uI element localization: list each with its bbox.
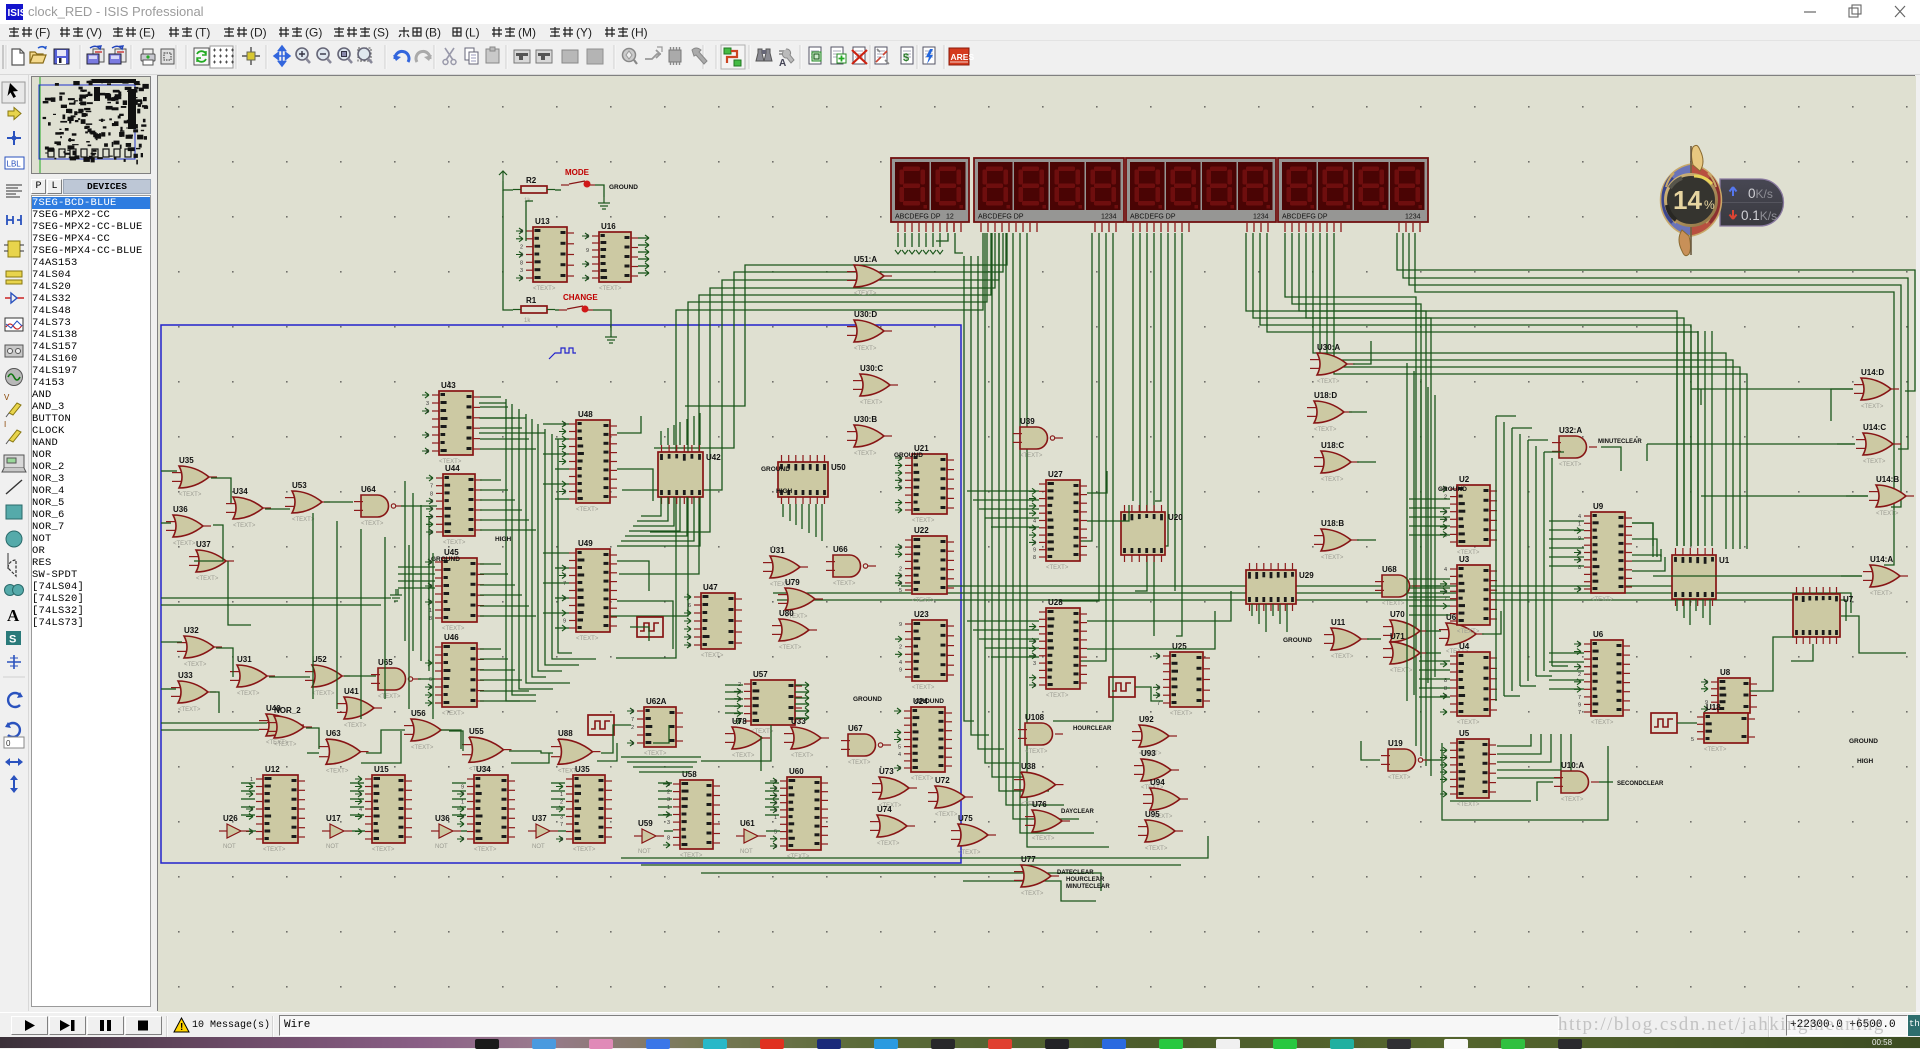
svg-text:<TEXT>: <TEXT>: [833, 581, 856, 587]
svg-text:6: 6: [1157, 654, 1160, 660]
wire: [1536, 675, 1552, 677]
svg-text:4: 4: [520, 253, 523, 259]
wire: [551, 782, 565, 784]
7seg display module DS2: [974, 158, 1124, 232]
wire: [1520, 685, 1536, 687]
wire: [398, 566, 435, 568]
wire: [725, 698, 743, 700]
wire: [1497, 734, 1571, 778]
svg-text:<TEXT>: <TEXT>: [576, 507, 599, 513]
wire: [1155, 233, 1161, 501]
svg-text:<TEXT>: <TEXT>: [1382, 601, 1405, 607]
svg-text:4: 4: [563, 596, 566, 602]
wire: [352, 830, 365, 832]
wire: [985, 647, 1039, 649]
wire: [1056, 233, 1106, 661]
svg-text:5: 5: [426, 409, 429, 415]
wire: [452, 814, 466, 816]
svg-text:6: 6: [430, 530, 433, 536]
svg-text:6: 6: [563, 422, 566, 428]
gate U11: [1324, 618, 1369, 660]
wire: [555, 309, 559, 311]
wire: [1062, 233, 1092, 541]
svg-text:U19: U19: [1388, 739, 1403, 748]
IC U45: [425, 548, 484, 632]
wire: [1841, 575, 1862, 577]
svg-text:<TEXT>: <TEXT>: [1314, 427, 1337, 433]
wire: [633, 497, 674, 526]
IC U2: [1440, 475, 1497, 556]
wire: [1442, 743, 1608, 820]
buffer U59: [634, 819, 664, 855]
wire: [480, 406, 508, 408]
wire: [1156, 233, 1168, 546]
wire: [1420, 379, 1422, 689]
svg-text:<TEXT>: <TEXT>: [1331, 654, 1354, 660]
wire: [1403, 233, 1908, 449]
svg-text:<TEXT>: <TEXT>: [1876, 511, 1899, 517]
svg-text:9: 9: [899, 622, 902, 628]
svg-text:2: 2: [250, 807, 253, 813]
svg-text:U14:D: U14:D: [1861, 368, 1884, 377]
wire: [1831, 389, 1853, 421]
svg-text:U2: U2: [1459, 475, 1470, 484]
svg-text:ABCDEFG DP: ABCDEFG DP: [895, 214, 941, 221]
svg-text:GROUND: GROUND: [431, 556, 460, 563]
IC U15: [355, 765, 412, 853]
inner dark circle: [1666, 175, 1717, 226]
svg-text:7: 7: [430, 507, 433, 513]
gate U32: [177, 626, 222, 668]
buffer U61: [736, 819, 766, 855]
wire: [480, 658, 508, 660]
wire: [658, 814, 672, 816]
wire: [617, 469, 653, 501]
gate U30:B: [847, 415, 892, 457]
svg-text:NOT: NOT: [532, 844, 545, 850]
wire: [1704, 331, 1706, 546]
wire: [1421, 585, 1441, 587]
wire: [1265, 604, 1267, 632]
wire: [480, 648, 501, 650]
svg-text:U64: U64: [361, 485, 376, 494]
wire: [480, 489, 508, 491]
wire: [161, 470, 177, 472]
wire: [1419, 678, 1450, 680]
wire: [650, 233, 995, 532]
gate U34: [226, 487, 271, 529]
svg-text:<TEXT>: <TEXT>: [791, 753, 814, 759]
svg-text:3: 3: [520, 268, 523, 274]
gate U72: [928, 776, 973, 818]
wire: [1292, 233, 1421, 756]
wire: [211, 478, 231, 503]
wire: [1683, 331, 1685, 546]
wire: [558, 830, 566, 832]
wire: [1357, 461, 1376, 463]
svg-text:<TEXT>: <TEXT>: [1861, 404, 1884, 410]
svg-text:<TEXT>: <TEXT>: [443, 540, 466, 546]
wire: [701, 873, 1101, 891]
wire: [210, 692, 219, 713]
svg-text:4: 4: [898, 752, 901, 758]
wire: [979, 638, 1039, 640]
wire: [795, 710, 809, 712]
svg-text:<TEXT>: <TEXT>: [599, 286, 622, 292]
svg-text:8: 8: [667, 835, 670, 841]
wire: [1601, 447, 1621, 471]
svg-text:1: 1: [1578, 665, 1581, 671]
wire: [555, 438, 569, 440]
svg-text:U37: U37: [532, 814, 547, 823]
svg-text:(G): (G): [305, 26, 322, 40]
wire: [619, 233, 991, 574]
IC U20 (rotated): [1121, 505, 1183, 562]
wire: [789, 504, 791, 521]
wire: [1543, 452, 1545, 671]
wire: [350, 798, 364, 800]
wire: [1549, 538, 1584, 540]
wire: [1647, 443, 1855, 445]
wire: [397, 589, 399, 595]
wire: [1503, 422, 1505, 696]
svg-text:<TEXT>: <TEXT>: [292, 517, 315, 523]
svg-text:<TEXT>: <TEXT>: [1317, 379, 1340, 385]
gate U36: [166, 505, 211, 547]
svg-text:NOT: NOT: [326, 844, 339, 850]
gate U70: [1383, 610, 1428, 652]
wire: [1504, 695, 1520, 697]
wire: [1334, 233, 1747, 549]
svg-text:<TEXT>: <TEXT>: [1032, 836, 1055, 842]
svg-text:MODE: MODE: [565, 168, 590, 177]
wire: [1409, 516, 1450, 518]
wire: [1353, 341, 1371, 364]
wire: [1750, 637, 1793, 691]
svg-text:HIGH: HIGH: [1857, 758, 1874, 765]
svg-text:U4: U4: [1459, 642, 1470, 651]
svg-text:<TEXT>: <TEXT>: [378, 694, 401, 700]
svg-text:7: 7: [563, 581, 566, 587]
wire: [1549, 547, 1584, 549]
svg-text:1: 1: [560, 792, 563, 798]
svg-text:4: 4: [899, 574, 902, 580]
IC U18: [1691, 703, 1755, 753]
wire: [1419, 696, 1450, 698]
IC U62A: [627, 697, 683, 757]
wire: [1632, 539, 1657, 557]
wire: [265, 508, 290, 510]
wire: [979, 508, 1039, 510]
svg-text:7: 7: [1444, 756, 1447, 762]
wire: [1251, 604, 1253, 616]
wire: [765, 798, 779, 800]
svg-text:7: 7: [1578, 710, 1581, 716]
wire: [765, 790, 779, 792]
wire: [1409, 605, 1450, 607]
wire: [699, 413, 701, 445]
wire: [269, 676, 310, 678]
svg-text:U94: U94: [1150, 778, 1165, 787]
gate U30:C: [853, 364, 898, 406]
wire: [1497, 734, 1531, 746]
wire: [1132, 233, 1134, 501]
IC U21: [895, 444, 954, 524]
wire: [1367, 638, 1381, 640]
wire: [161, 722, 267, 724]
svg-text:U70: U70: [1390, 610, 1405, 619]
wire: [638, 258, 649, 260]
svg-text:4: 4: [1578, 551, 1581, 557]
IC U6: [1574, 630, 1630, 726]
svg-text:<TEXT>: <TEXT>: [680, 853, 703, 859]
svg-text:2: 2: [1444, 495, 1447, 501]
svg-text:<TEXT>: <TEXT>: [911, 776, 934, 782]
wire: [228, 561, 251, 625]
svg-text:$: $: [903, 52, 909, 64]
svg-text:<TEXT>: <TEXT>: [1388, 775, 1411, 781]
wire: [685, 233, 1007, 406]
svg-text:6: 6: [429, 677, 432, 683]
wire: [241, 790, 255, 792]
svg-text:GROUND: GROUND: [915, 698, 944, 705]
svg-text:<TEXT>: <TEXT>: [344, 723, 367, 729]
svg-text:<TEXT>: <TEXT>: [474, 847, 497, 853]
svg-text:<TEXT>: <TEXT>: [1321, 477, 1344, 483]
gate U68: [1375, 565, 1420, 607]
wire: [765, 806, 779, 808]
wire: [985, 233, 1019, 763]
IC U3: [1440, 555, 1497, 635]
svg-text:<TEXT>: <TEXT>: [1457, 629, 1480, 635]
svg-text:<TEXT>: <TEXT>: [1321, 555, 1344, 561]
svg-text:HOURCLEAR: HOURCLEAR: [1073, 726, 1112, 732]
svg-text:NOT: NOT: [740, 849, 753, 855]
wire: [479, 417, 526, 419]
wire: [1837, 443, 1855, 445]
wire: [1549, 688, 1584, 690]
wire: [509, 751, 553, 753]
svg-text:<TEXT>: <TEXT>: [848, 760, 871, 766]
wire: [480, 679, 522, 681]
gate U31: [763, 546, 808, 588]
svg-text:7: 7: [461, 837, 464, 843]
wire: [555, 498, 569, 500]
wire: [479, 432, 545, 434]
svg-text:U1: U1: [1719, 556, 1730, 565]
wire: [1427, 759, 1442, 761]
IC U50 (rotated): [778, 455, 846, 504]
gate U95: [1138, 810, 1183, 852]
gate U30:A: [1310, 343, 1355, 385]
svg-text:U55: U55: [469, 727, 484, 736]
wire: [1544, 451, 1564, 453]
wire: [1841, 616, 1906, 653]
svg-text:U31: U31: [770, 546, 785, 555]
svg-text:7: 7: [1578, 695, 1581, 701]
svg-text:5: 5: [1705, 680, 1708, 686]
wire: [480, 669, 515, 671]
svg-text:U46: U46: [444, 633, 459, 642]
IC U1 (rotated): [1672, 548, 1730, 606]
wire: [1697, 331, 1699, 546]
svg-text:V: V: [4, 393, 10, 402]
svg-text:6: 6: [1444, 589, 1447, 595]
wire: [1409, 587, 1450, 589]
svg-text:4: 4: [899, 581, 902, 587]
svg-text:U57: U57: [753, 670, 768, 679]
wire: [679, 422, 681, 445]
svg-text:<TEXT>: <TEXT>: [860, 400, 883, 406]
svg-text:9: 9: [1033, 548, 1036, 554]
svg-text:U37: U37: [196, 540, 211, 549]
gate NOR_2: [267, 706, 312, 748]
wire: [1552, 665, 1568, 667]
svg-text:U30:B: U30:B: [854, 415, 877, 424]
wire: [241, 782, 255, 784]
wire: [901, 585, 1673, 587]
svg-text:U78: U78: [732, 717, 747, 726]
svg-text:<TEXT>: <TEXT>: [179, 492, 202, 498]
wire: [1361, 741, 1380, 760]
wire: [664, 830, 673, 832]
wire: [1409, 596, 1450, 598]
wire: [991, 526, 1039, 528]
svg-text:GROUND: GROUND: [894, 452, 923, 459]
gate U14:B: [1869, 475, 1914, 517]
wire: [428, 517, 430, 671]
wire: [1691, 388, 1853, 390]
svg-text:3: 3: [667, 820, 670, 826]
svg-text:0.1K/s: 0.1K/s: [1741, 208, 1777, 223]
svg-text:U68: U68: [1382, 565, 1397, 574]
svg-text:<TEXT>: <TEXT>: [787, 854, 810, 860]
pulse generator: [1651, 713, 1677, 733]
svg-text:ISIS: ISIS: [8, 8, 24, 19]
svg-text:0: 0: [6, 739, 11, 748]
wire: [480, 690, 529, 692]
wire: [545, 429, 579, 665]
svg-text:U26: U26: [223, 814, 238, 823]
wire: [452, 806, 466, 808]
gate U88: [551, 729, 601, 774]
IC U5: [1440, 729, 1496, 808]
wire: [543, 612, 569, 614]
wire: [306, 728, 319, 749]
wire: [1482, 611, 1501, 634]
wire: [1134, 233, 1140, 546]
wire: [555, 627, 569, 629]
wire: [1397, 233, 1915, 391]
svg-text:4: 4: [429, 685, 432, 691]
gate U14:A: [1863, 555, 1908, 597]
wire: [765, 782, 779, 784]
wire: [1135, 687, 1163, 701]
svg-text:2: 2: [899, 645, 902, 651]
wire: [1413, 371, 1415, 695]
svg-text:U92: U92: [1139, 715, 1154, 724]
wire: [1320, 233, 1733, 549]
svg-text:U35: U35: [575, 765, 590, 774]
wire: [1327, 233, 1740, 549]
svg-text:9: 9: [1578, 558, 1581, 564]
svg-text:U59: U59: [638, 819, 653, 828]
svg-text:5: 5: [899, 486, 902, 492]
wire: [1260, 233, 1691, 546]
wire: [361, 731, 401, 763]
svg-text:U93: U93: [1141, 749, 1156, 758]
wire: [161, 597, 391, 599]
svg-text:4: 4: [586, 262, 589, 268]
wire: [701, 725, 771, 761]
svg-text:U79: U79: [785, 578, 800, 587]
svg-text:1: 1: [774, 815, 777, 821]
svg-text:<TEXT>: <TEXT>: [644, 751, 667, 757]
wire: [1653, 575, 1862, 577]
wire: [1409, 534, 1450, 536]
wire: [795, 684, 809, 686]
wire: [1702, 599, 1704, 618]
wire: [992, 233, 1034, 777]
wire: [629, 497, 680, 531]
wire: [480, 479, 501, 481]
wire: [324, 501, 353, 503]
wire: [633, 766, 693, 768]
wire: [1512, 427, 1532, 429]
wire: [398, 587, 435, 589]
svg-text:5: 5: [688, 635, 691, 641]
wire: [398, 580, 435, 582]
wire: [978, 256, 1004, 749]
svg-text:4: 4: [1033, 519, 1036, 525]
wire: [480, 563, 501, 565]
wire: [673, 425, 675, 445]
wire: [782, 504, 784, 517]
IC U28: [1029, 598, 1087, 699]
IC U60: [770, 767, 828, 860]
svg-text:U8: U8: [1720, 668, 1731, 677]
wire: [412, 493, 414, 651]
svg-text:U66: U66: [833, 545, 848, 554]
gate U78: [725, 717, 770, 759]
wire: [658, 790, 672, 792]
wire: [795, 697, 809, 699]
wire: [808, 504, 810, 533]
svg-text:!: !: [180, 1022, 183, 1033]
IC U27: [1029, 470, 1087, 571]
svg-text:<TEXT>: <TEXT>: [935, 812, 958, 818]
svg-text:<TEXT>: <TEXT>: [877, 841, 900, 847]
svg-text:MINUTECLEAR: MINUTECLEAR: [1598, 439, 1642, 445]
wire: [660, 431, 662, 445]
svg-text:U72: U72: [935, 776, 950, 785]
svg-text:NOT: NOT: [435, 844, 448, 850]
IC U16: [582, 222, 638, 292]
svg-text:(H): (H): [631, 26, 648, 40]
wire: [641, 497, 661, 516]
wire: [630, 627, 649, 641]
svg-text:3: 3: [774, 844, 777, 850]
svg-text:7: 7: [563, 566, 566, 572]
wire: [593, 310, 611, 331]
wire: [795, 691, 809, 693]
gate U63: [319, 729, 369, 774]
wire: [480, 448, 536, 450]
wire: [1176, 233, 1182, 636]
svg-text:U95: U95: [1145, 810, 1160, 819]
svg-text:U50: U50: [831, 463, 846, 472]
svg-text:9: 9: [586, 248, 589, 254]
